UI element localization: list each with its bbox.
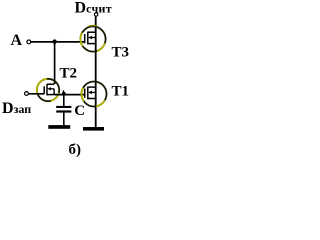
transistor T3 source stub <box>88 43 96 45</box>
transistor T2 envelope <box>37 79 59 101</box>
svg-text:б): б) <box>69 142 82 158</box>
terminal Dсчит <box>94 13 98 17</box>
transistor T3 gate bar <box>84 34 86 43</box>
junction node on A wire <box>52 39 56 43</box>
svg-text:Dсчит: Dсчит <box>75 0 112 16</box>
transistor T1 drain stub <box>88 86 96 88</box>
transistor T3 substrate stub with arrow <box>90 37 96 39</box>
svg-text:Dзап: Dзап <box>2 100 31 117</box>
wire storage node down to capacitor <box>63 94 65 106</box>
junction node storage <box>62 92 66 96</box>
wire read bit line: Dсчит through T3 and T1 down to ground <box>95 17 97 128</box>
wire capacitor to ground <box>63 113 65 126</box>
transistor T2 source stub <box>47 94 56 96</box>
transistor T3 envelope <box>80 25 105 51</box>
terminal Dзап <box>25 92 29 96</box>
transistor T2 gate bar <box>43 86 45 94</box>
wire stub above storage junction <box>63 90 65 94</box>
ground under capacitor <box>48 125 70 129</box>
wire Dзап to T2 gate <box>29 93 45 95</box>
transistor T2 drain stub <box>47 83 54 85</box>
transistor T1 source stub <box>88 98 96 100</box>
svg-text:T1: T1 <box>112 84 130 100</box>
transistor T1 envelope <box>82 82 107 107</box>
transistor T3 channel bar <box>87 32 89 45</box>
capacitor C bottom plate <box>56 110 71 112</box>
transistor T1 gate bar <box>84 89 86 98</box>
svg-text:C: C <box>74 103 85 119</box>
transistor T1 substrate stub with arrow <box>90 91 96 93</box>
transistor T2 substrate stub with arrow <box>49 88 54 90</box>
wire junction down to T2 drain <box>54 42 56 84</box>
wire storage node: T2 source to T1 gate <box>55 94 85 96</box>
svg-text:T3: T3 <box>112 45 130 61</box>
svg-text:T2: T2 <box>60 66 78 82</box>
transistor T3 drain stub <box>88 31 96 33</box>
transistor T1 channel bar <box>87 87 89 100</box>
transistor T2 channel bar <box>46 84 48 95</box>
capacitor C top plate <box>56 106 71 108</box>
ground under T1 <box>83 127 104 131</box>
terminal A <box>27 40 31 44</box>
transistor T2 substrate-to-source connector <box>53 89 55 95</box>
wire A to T3 gate <box>31 41 85 43</box>
svg-text:A: A <box>11 32 23 49</box>
